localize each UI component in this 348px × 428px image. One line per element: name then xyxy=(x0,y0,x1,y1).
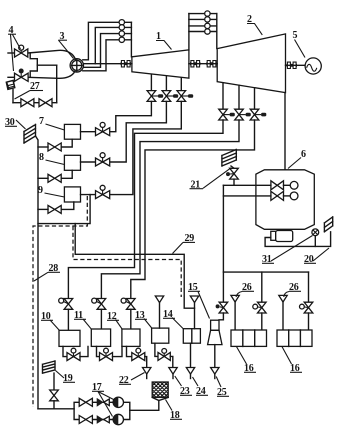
heater 8 xyxy=(64,155,80,170)
label 6 xyxy=(288,149,306,169)
label 29 xyxy=(173,233,196,254)
expander vessel 15 xyxy=(208,320,222,344)
loop bottom valve xyxy=(79,416,92,424)
HP drain valve b xyxy=(162,91,178,102)
label 31 xyxy=(262,236,313,266)
control valve 10 xyxy=(59,298,73,330)
label 9 xyxy=(38,185,64,197)
solid tap line to rail xyxy=(38,195,90,224)
heater 8 outlet valve xyxy=(81,153,110,166)
LP drain valve a xyxy=(219,109,235,120)
gland condenser 3 xyxy=(70,59,83,72)
label 23 xyxy=(175,376,192,397)
loop bottom check valve xyxy=(97,415,110,424)
control valve 11 xyxy=(92,298,106,329)
heater 7 xyxy=(64,124,80,139)
valve 19 line xyxy=(50,373,59,409)
label 28 xyxy=(34,263,60,281)
heater 9 drain xyxy=(38,202,74,213)
tank pump 31 xyxy=(265,231,331,247)
label 27 xyxy=(15,81,44,99)
drain cooler 10 outlet valve xyxy=(63,346,88,360)
feed line to flash box 14 xyxy=(75,224,194,309)
label 14 xyxy=(163,309,184,329)
coupling HP left xyxy=(121,61,132,67)
label 5 xyxy=(293,30,306,58)
drain rail from hatch 30 xyxy=(36,136,39,409)
drain cooler 11 xyxy=(91,329,110,346)
drain cooler 11 outlet valve xyxy=(97,346,123,360)
wire LP drain c to valve 12 xyxy=(131,120,255,299)
label 24 xyxy=(193,377,209,397)
svg-text:6: 6 xyxy=(301,149,306,160)
loop bottom pump xyxy=(113,414,123,424)
shaft HP left xyxy=(83,63,132,65)
funnel 23 xyxy=(169,368,177,379)
coupling LP-generator xyxy=(287,62,298,68)
bypass valve a xyxy=(21,99,34,107)
label 13 xyxy=(135,310,152,328)
turbine HP 1 xyxy=(132,50,189,78)
shaft HP-LP xyxy=(189,63,217,65)
svg-text:9: 9 xyxy=(38,185,43,196)
label 3 xyxy=(58,31,73,59)
heater 9 outlet valve xyxy=(81,185,110,198)
bypass line 27 xyxy=(13,102,57,104)
label 26a xyxy=(236,282,254,297)
label 10 xyxy=(41,311,60,331)
vent hatch 21 xyxy=(222,150,236,167)
label 19 xyxy=(56,371,76,385)
tank 16b feed valve 26 xyxy=(300,272,313,330)
HP drain valve c xyxy=(177,91,193,102)
label 22 xyxy=(119,373,145,387)
svg-text:7: 7 xyxy=(39,116,44,127)
funnel 25 xyxy=(211,368,219,379)
drain cooler 10 xyxy=(59,330,80,346)
label 2 xyxy=(247,14,262,35)
label 12 xyxy=(107,311,122,329)
control valve 12 xyxy=(121,298,135,329)
LP drain valve b xyxy=(235,109,251,120)
tank 16a feed valve 26 xyxy=(253,272,266,330)
flash tank 14 drain xyxy=(190,343,192,367)
label 18 xyxy=(166,400,183,422)
label 15 xyxy=(188,282,210,319)
label 11 xyxy=(74,310,92,329)
tank inlet pipes xyxy=(223,185,271,196)
gland steam lines top-left xyxy=(83,22,132,71)
funnel above 14 xyxy=(190,296,198,329)
drain cooler 12 outlet valve xyxy=(127,346,147,367)
label 7 xyxy=(39,116,64,130)
bypass valve b xyxy=(39,99,52,107)
tank spray valve 2 xyxy=(271,191,298,200)
tank 6 xyxy=(256,170,314,230)
label 17 xyxy=(92,382,115,417)
dashed line 29 xyxy=(73,226,181,297)
label 8 xyxy=(39,152,64,165)
funnel 26b xyxy=(279,295,287,330)
HP drain valve a xyxy=(147,91,163,102)
hatch 19 xyxy=(43,361,56,373)
flash tank 13 outlet valve xyxy=(155,343,173,367)
wire LP drain b to valve 11 xyxy=(101,120,239,299)
vent hatch 20 xyxy=(324,217,332,232)
loop top pump xyxy=(113,397,123,407)
funnel 22 xyxy=(143,368,151,379)
LP exhaust to tank 6 xyxy=(284,93,286,170)
label 16b xyxy=(282,347,302,374)
valve 4b xyxy=(8,69,28,82)
funnel 24 xyxy=(186,368,194,379)
valve 21 xyxy=(226,166,238,185)
label 4 xyxy=(8,25,21,71)
crossover pipe bundle above turbines xyxy=(189,14,217,50)
wire LP drain a to valve 10 xyxy=(68,120,223,299)
steam chest piping to valves 4 xyxy=(28,50,76,102)
heater 9 xyxy=(64,187,80,202)
flash tank 14 xyxy=(183,329,200,344)
wire HP drain b to heater 8 valve xyxy=(110,101,167,162)
valve 4a xyxy=(8,45,28,57)
label 1 xyxy=(156,31,172,50)
storage tank 16a xyxy=(231,330,267,346)
funnel 26a xyxy=(231,295,239,330)
condensate pump loop 17 xyxy=(74,402,130,419)
heater 7 outlet valve xyxy=(81,122,110,135)
LP drain stubs xyxy=(223,83,255,110)
pipe to filter 18 xyxy=(130,401,159,411)
label 30 xyxy=(5,117,26,129)
heater 7 drain xyxy=(38,139,72,151)
label 20 xyxy=(304,248,329,265)
bottom header xyxy=(38,408,74,410)
storage tank 16b xyxy=(277,330,312,346)
expander drain xyxy=(214,345,216,368)
drain cooler 12 xyxy=(122,329,140,346)
vent pipe down to bypass xyxy=(12,89,14,102)
wire HP drain c to heater 9 valve xyxy=(110,101,182,194)
svg-text:8: 8 xyxy=(39,152,44,163)
label 16a xyxy=(237,347,257,374)
generator 5 xyxy=(286,58,322,74)
coupling HP right xyxy=(190,61,200,67)
heater 8 drain xyxy=(38,170,72,182)
drain valve 31 xyxy=(312,229,319,246)
flash tank 13 xyxy=(152,328,169,343)
vent hatch near 27 xyxy=(6,80,15,89)
header to tanks 16 xyxy=(223,271,308,273)
wire HP drain a to heater 7 valve xyxy=(110,101,152,131)
HP drain stubs xyxy=(151,74,181,90)
coupling LP left xyxy=(206,61,216,67)
turbine LP 2 xyxy=(217,34,285,93)
junction circles crossover xyxy=(205,11,210,34)
expander feed valve xyxy=(216,185,228,319)
funnel above 13 xyxy=(155,296,163,328)
LP drain valve c xyxy=(250,109,266,120)
loop top check valve xyxy=(97,398,110,407)
loop top valve xyxy=(79,398,92,406)
filter 18 xyxy=(152,382,168,401)
tank spray valve 1 xyxy=(271,181,298,190)
vent hatch 30 xyxy=(24,125,36,144)
label 25 xyxy=(216,377,229,399)
label 26b xyxy=(284,282,301,297)
junction circles gland lines xyxy=(119,20,124,43)
label 21 xyxy=(190,168,232,191)
dashed line 28 xyxy=(33,196,87,407)
